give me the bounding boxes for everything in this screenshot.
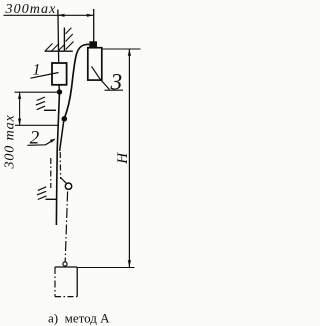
clamp box 1: [52, 63, 67, 85]
junction dot A: [57, 89, 62, 94]
svg-text:а) метод А: а) метод А: [48, 311, 110, 326]
leader line of label 1: [31, 73, 59, 79]
extension/suspension line left (to box 1): [57, 10, 60, 63]
eyelet on load: [63, 262, 67, 266]
extension/suspension line right (to device 3): [93, 9, 95, 43]
svg-text:H: H: [115, 152, 131, 165]
cable from device 3 (curved): [65, 44, 90, 118]
dimension arrow right (top): [87, 14, 94, 17]
centre line left (dash-dot): [50, 158, 52, 188]
specimen line L1 (vertical, from dot A down): [56, 92, 59, 225]
dimension arrow H up: [128, 49, 131, 56]
underline of label 3: [105, 89, 124, 91]
load box right edge: [76, 267, 78, 297]
cable segment from dot B merging down: [60, 119, 64, 151]
support S1 hatching: [45, 28, 74, 51]
dimension arrow down (vertical dim): [18, 119, 21, 126]
leader arrowhead of label 2: [50, 139, 56, 143]
dimension line H (vertical): [128, 49, 130, 267]
suspension centre line to load (dash-dot): [65, 192, 67, 262]
support S2 horizontal: [44, 109, 56, 111]
hook ring: [65, 183, 71, 189]
extension line H bottom: [77, 267, 134, 269]
load box top edge: [55, 266, 77, 268]
svg-text:300 max: 300 max: [3, 114, 18, 169]
dimension arrow up (vertical dim): [18, 92, 21, 99]
terminal blob on device 3: [89, 41, 97, 47]
dimension arrow left (top): [58, 14, 65, 17]
junction dot B: [62, 116, 68, 122]
dimension line 300max (top horizontal): [4, 14, 94, 16]
underline and leader of label 2: [27, 139, 54, 145]
support S1 horizontal (ceiling): [45, 50, 73, 52]
dimension line 300 max (vertical): [19, 92, 21, 125]
device box 3: [88, 48, 102, 80]
dimension arrow H down: [128, 260, 131, 267]
extension line H top: [101, 48, 140, 50]
link to hook: [61, 178, 67, 184]
support S1 vertical (wall corner): [63, 28, 65, 52]
support S2 hatching: [36, 97, 45, 110]
support S4 horizontal (bottom): [46, 198, 58, 200]
leader line of label 3: [92, 66, 110, 89]
support S4 hatching: [37, 187, 47, 200]
load box bottom edge (dash-dot): [55, 296, 77, 298]
load box left edge (dash-dot): [54, 267, 56, 297]
connector below box 1: [58, 85, 61, 92]
centre line right (dash-dot): [59, 152, 61, 179]
extension line bottom (vertical dim 300 max): [15, 124, 58, 126]
extension line top (vertical dim 300 max): [15, 91, 58, 93]
